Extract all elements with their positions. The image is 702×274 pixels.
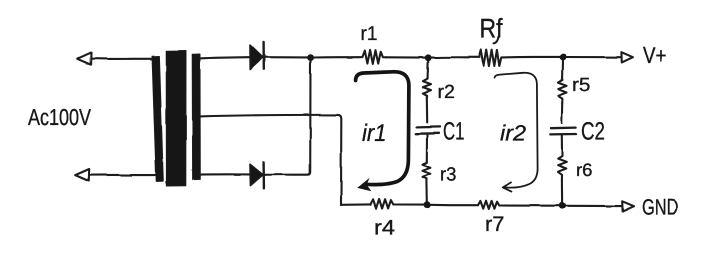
capacitor C2 bottom plate bbox=[550, 133, 576, 136]
diode D2 (bottom) triangle bbox=[250, 164, 263, 185]
resistor r5 (vertical) bbox=[558, 78, 567, 103]
resistor r2 (vertical) bbox=[423, 77, 431, 97]
wire: secondary centre tap to corner bbox=[200, 115, 338, 117]
wire: r4 to node C bbox=[396, 203, 424, 205]
wire: secondary bottom tap to diode D2 bbox=[200, 173, 250, 175]
arrowhead: V+ output (open, pointing right) bbox=[621, 52, 633, 62]
wire: node B down to r5 bbox=[562, 60, 565, 78]
wire: r2 to C1 bbox=[426, 97, 429, 122]
arrowhead of ir2 (open, pointing left) bbox=[503, 182, 512, 191]
transformer T1 primary winding bar bbox=[152, 56, 163, 181]
svg-text:ir1: ir1 bbox=[362, 120, 387, 147]
current loop ir1 (thick arrow) bbox=[356, 72, 409, 185]
diode D2 cathode bar bbox=[262, 162, 265, 188]
wire: D1 cathode to junction bbox=[264, 56, 307, 58]
resistor r3 (vertical) bbox=[423, 161, 431, 181]
svg-text:C2: C2 bbox=[581, 118, 605, 146]
wire: node C to r7 bbox=[430, 204, 478, 206]
capacitor C1 top plate bbox=[417, 126, 440, 129]
svg-text:r1: r1 bbox=[361, 23, 378, 45]
svg-text:GND: GND bbox=[642, 195, 679, 220]
svg-text:C1: C1 bbox=[443, 118, 465, 146]
wire: node B to V+ arrow bbox=[566, 56, 621, 58]
svg-text:ir2: ir2 bbox=[500, 121, 526, 146]
resistor r6 (vertical) bbox=[558, 154, 567, 180]
junction node B (top of r5 branch) bbox=[560, 54, 567, 61]
f descender tail of Rf bbox=[494, 37, 499, 44]
current loop ir2 (thin arrow) bbox=[495, 73, 538, 192]
capacitor C1 bottom plate bbox=[416, 132, 439, 135]
svg-text:Rf: Rf bbox=[480, 14, 503, 44]
svg-text:r7: r7 bbox=[485, 213, 505, 236]
arrowhead: GND output (open, pointing right) bbox=[622, 201, 634, 211]
wire: secondary top tap to diode D1 bbox=[200, 57, 250, 58]
arrowhead: bottom-left input terminal (open, pointing left) bbox=[75, 169, 89, 181]
resistor r4 bbox=[371, 199, 397, 209]
svg-text:r5: r5 bbox=[572, 75, 591, 96]
wire: junction to r1 bbox=[314, 56, 358, 58]
svg-text:r6: r6 bbox=[576, 160, 593, 180]
wire: D2 cathode to riser corner bbox=[264, 61, 310, 175]
arrowhead of ir1 (filled, pointing left) bbox=[357, 178, 371, 191]
wire: node A to Rf bbox=[431, 56, 476, 58]
junction node A (top of r2 branch) bbox=[425, 54, 432, 61]
resistor r1 bbox=[358, 50, 386, 64]
svg-text:Ac100V: Ac100V bbox=[28, 104, 92, 130]
transformer T1 core bar bbox=[166, 51, 186, 186]
svg-text:r4: r4 bbox=[374, 217, 395, 240]
capacitor C2 top plate bbox=[551, 126, 576, 129]
wire: top-left input lead bbox=[89, 58, 156, 60]
wire: r6 to bottom rail bbox=[561, 180, 563, 202]
junction node D (bottom of r6 branch) bbox=[559, 202, 566, 209]
wire: Rf to node B bbox=[504, 56, 560, 59]
wire: C2 to r6 bbox=[561, 135, 563, 154]
junction node: rectifier output bbox=[307, 54, 314, 61]
svg-text:r2: r2 bbox=[438, 82, 456, 103]
wire: r5 to C2 bbox=[561, 103, 564, 123]
svg-text:r3: r3 bbox=[440, 165, 457, 186]
wire: r1 to node A bbox=[386, 56, 425, 58]
arrowhead: top-left input terminal (open, pointing left) bbox=[77, 53, 91, 65]
junction node C (bottom of r3 branch) bbox=[424, 201, 431, 208]
resistor r7 bbox=[478, 201, 501, 209]
wire: r3 to bottom rail bbox=[425, 181, 427, 202]
svg-text:V+: V+ bbox=[643, 43, 667, 70]
wire: bottom rail left segment bbox=[341, 203, 371, 206]
diode D1 cathode bar bbox=[262, 41, 265, 69]
wire: r7 to node D bbox=[501, 204, 559, 206]
wire: centre tap corner down to bottom rail bbox=[338, 115, 341, 205]
wire: C1 to r3 bbox=[426, 134, 428, 160]
transformer T1 secondary winding bar bbox=[192, 54, 200, 180]
resistor Rf bbox=[476, 50, 504, 67]
wire: node A down to r2 bbox=[427, 61, 430, 77]
wire: bottom-left input lead bbox=[88, 174, 156, 176]
wire: node D to GND arrow bbox=[565, 205, 621, 207]
diode D1 (top) triangle bbox=[250, 45, 263, 70]
